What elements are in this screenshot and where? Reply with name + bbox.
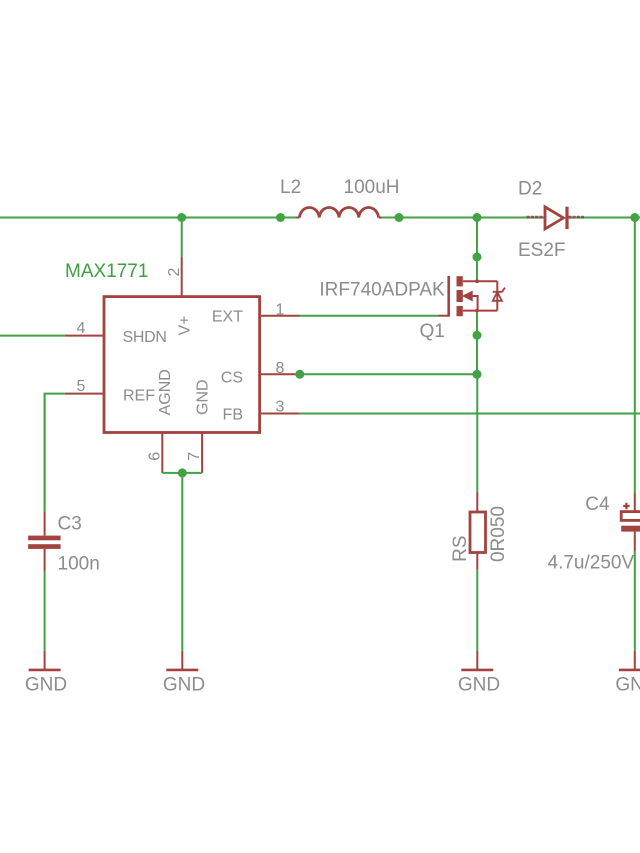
svg-text:GND: GND (458, 675, 500, 696)
node junction dot Q1 source pin (473, 331, 482, 340)
svg-text:6: 6 (146, 452, 163, 461)
resistor RS (470, 493, 486, 570)
capacitor C4 (polarized) (621, 493, 640, 551)
wire CS node down to RS (476, 374, 478, 492)
svg-text:AGND: AGND (157, 369, 174, 415)
wire D2 output down to C4 / FB crossing (634, 218, 636, 493)
wire FB net to right edge (300, 413, 640, 415)
pin 7 GND stub (201, 432, 203, 473)
body diode cathode (493, 288, 505, 292)
ground GND3 bar (461, 669, 493, 672)
pin 4 SHDN wire (0, 335, 65, 337)
body diode bar line (496, 281, 498, 310)
pin 4 SHDN stub (65, 335, 103, 337)
svg-text:8: 8 (276, 360, 285, 377)
svg-text:0R050: 0R050 (488, 506, 509, 562)
wire V+ branch (net to pin 2) (181, 218, 183, 258)
label D2 package tiny text left (527, 216, 547, 219)
node junction dot V+ branch (177, 213, 186, 222)
wire REF net down to C3 (44, 394, 46, 512)
ground GND2 bar (166, 669, 198, 672)
wire EXT to Q1 gate (300, 315, 439, 317)
svg-text:GND: GND (25, 675, 67, 696)
ground GND1 bar (29, 669, 61, 672)
body diode triangle (493, 292, 502, 301)
transistor Q1 IRF740ADPAK (439, 276, 506, 317)
wire C3 to ground (44, 571, 46, 651)
svg-text:GND: GND (194, 379, 211, 415)
node junction dot CS / RS (473, 370, 482, 379)
node junction dot AGND/GND (178, 468, 187, 477)
node red dot Q1 source (475, 309, 479, 313)
wire CS net (300, 373, 477, 375)
svg-text:V+: V+ (177, 315, 194, 335)
ground GND4 bar (619, 669, 640, 672)
pin 8 CS stub (261, 373, 300, 375)
wire C4 to ground (634, 551, 636, 651)
svg-text:4.7u/250V: 4.7u/250V (548, 553, 635, 574)
svg-text:2: 2 (166, 267, 183, 276)
svg-text:CS: CS (221, 369, 243, 386)
wire AGND-GND join (162, 472, 202, 474)
svg-text:SHDN: SHDN (123, 329, 167, 346)
svg-text:REF: REF (123, 387, 155, 404)
svg-text:EXT: EXT (212, 308, 243, 325)
wire Q1 source down to CS node (476, 312, 478, 375)
plus sign (623, 503, 629, 509)
ground GND3 stub (476, 651, 478, 670)
wire RS to ground (476, 570, 478, 651)
svg-text:1: 1 (276, 301, 285, 318)
pin 6 AGND stub (161, 432, 163, 473)
source link (463, 310, 498, 312)
svg-text:MAX1771: MAX1771 (65, 261, 148, 282)
label D2 package tiny text right (569, 216, 585, 219)
svg-text:ES2F: ES2F (518, 240, 566, 261)
node junction dot D2 cathode / C4 branch (630, 213, 639, 222)
gate bar (447, 276, 450, 317)
svg-text:RS: RS (450, 535, 471, 561)
node junction dot L2 left (276, 213, 285, 222)
svg-text:3: 3 (276, 398, 285, 415)
wire top net segment middle (between L2 and D2) (382, 217, 545, 219)
op-amp U1 MAX1771 IC body (104, 297, 260, 433)
wire top net segment left (0, 217, 297, 219)
pin 5 REF wire (45, 394, 65, 512)
ground GND2 stub (181, 651, 183, 670)
svg-text:100n: 100n (58, 554, 100, 575)
ground GND4 stub (634, 651, 636, 670)
drain link (463, 280, 498, 282)
wire Q1 drain to top net (476, 218, 478, 282)
pin 3 FB stub (261, 413, 300, 415)
diode D2 (545, 207, 567, 229)
inductor L2 (297, 207, 382, 217)
pin 1 EXT stub (261, 315, 300, 317)
node junction dot L2 right (395, 213, 404, 222)
substrate link (472, 296, 477, 311)
node junction dot Q1 drain pin (473, 253, 482, 262)
svg-text:L2: L2 (280, 177, 301, 198)
svg-text:100uH: 100uH (344, 177, 400, 198)
svg-text:Q1: Q1 (420, 321, 445, 342)
svg-text:5: 5 (77, 378, 86, 395)
wire IC ground down (181, 473, 183, 651)
substrate arrow (463, 291, 472, 300)
svg-text:GND: GND (163, 675, 205, 696)
svg-text:C3: C3 (58, 514, 82, 535)
svg-text:FB: FB (223, 406, 243, 423)
wire top net segment right (after D2) (569, 217, 640, 219)
svg-text:D2: D2 (518, 179, 542, 200)
svg-text:IRF740ADPAK: IRF740ADPAK (319, 280, 445, 301)
node junction dot Q1 drain branch (473, 213, 482, 222)
pin 5 REF stub (65, 393, 103, 395)
svg-text:4: 4 (77, 320, 86, 337)
ground GND1 stub (44, 651, 46, 670)
gate stub (439, 315, 449, 317)
svg-text:C4: C4 (585, 494, 610, 515)
svg-text:GND: GND (615, 675, 640, 696)
svg-text:7: 7 (186, 452, 203, 461)
channel blocks (457, 276, 463, 286)
pin 2 V+ stub (181, 257, 183, 297)
node junction dot CS stub (295, 370, 304, 379)
node red dot Q1 drain (475, 279, 479, 283)
